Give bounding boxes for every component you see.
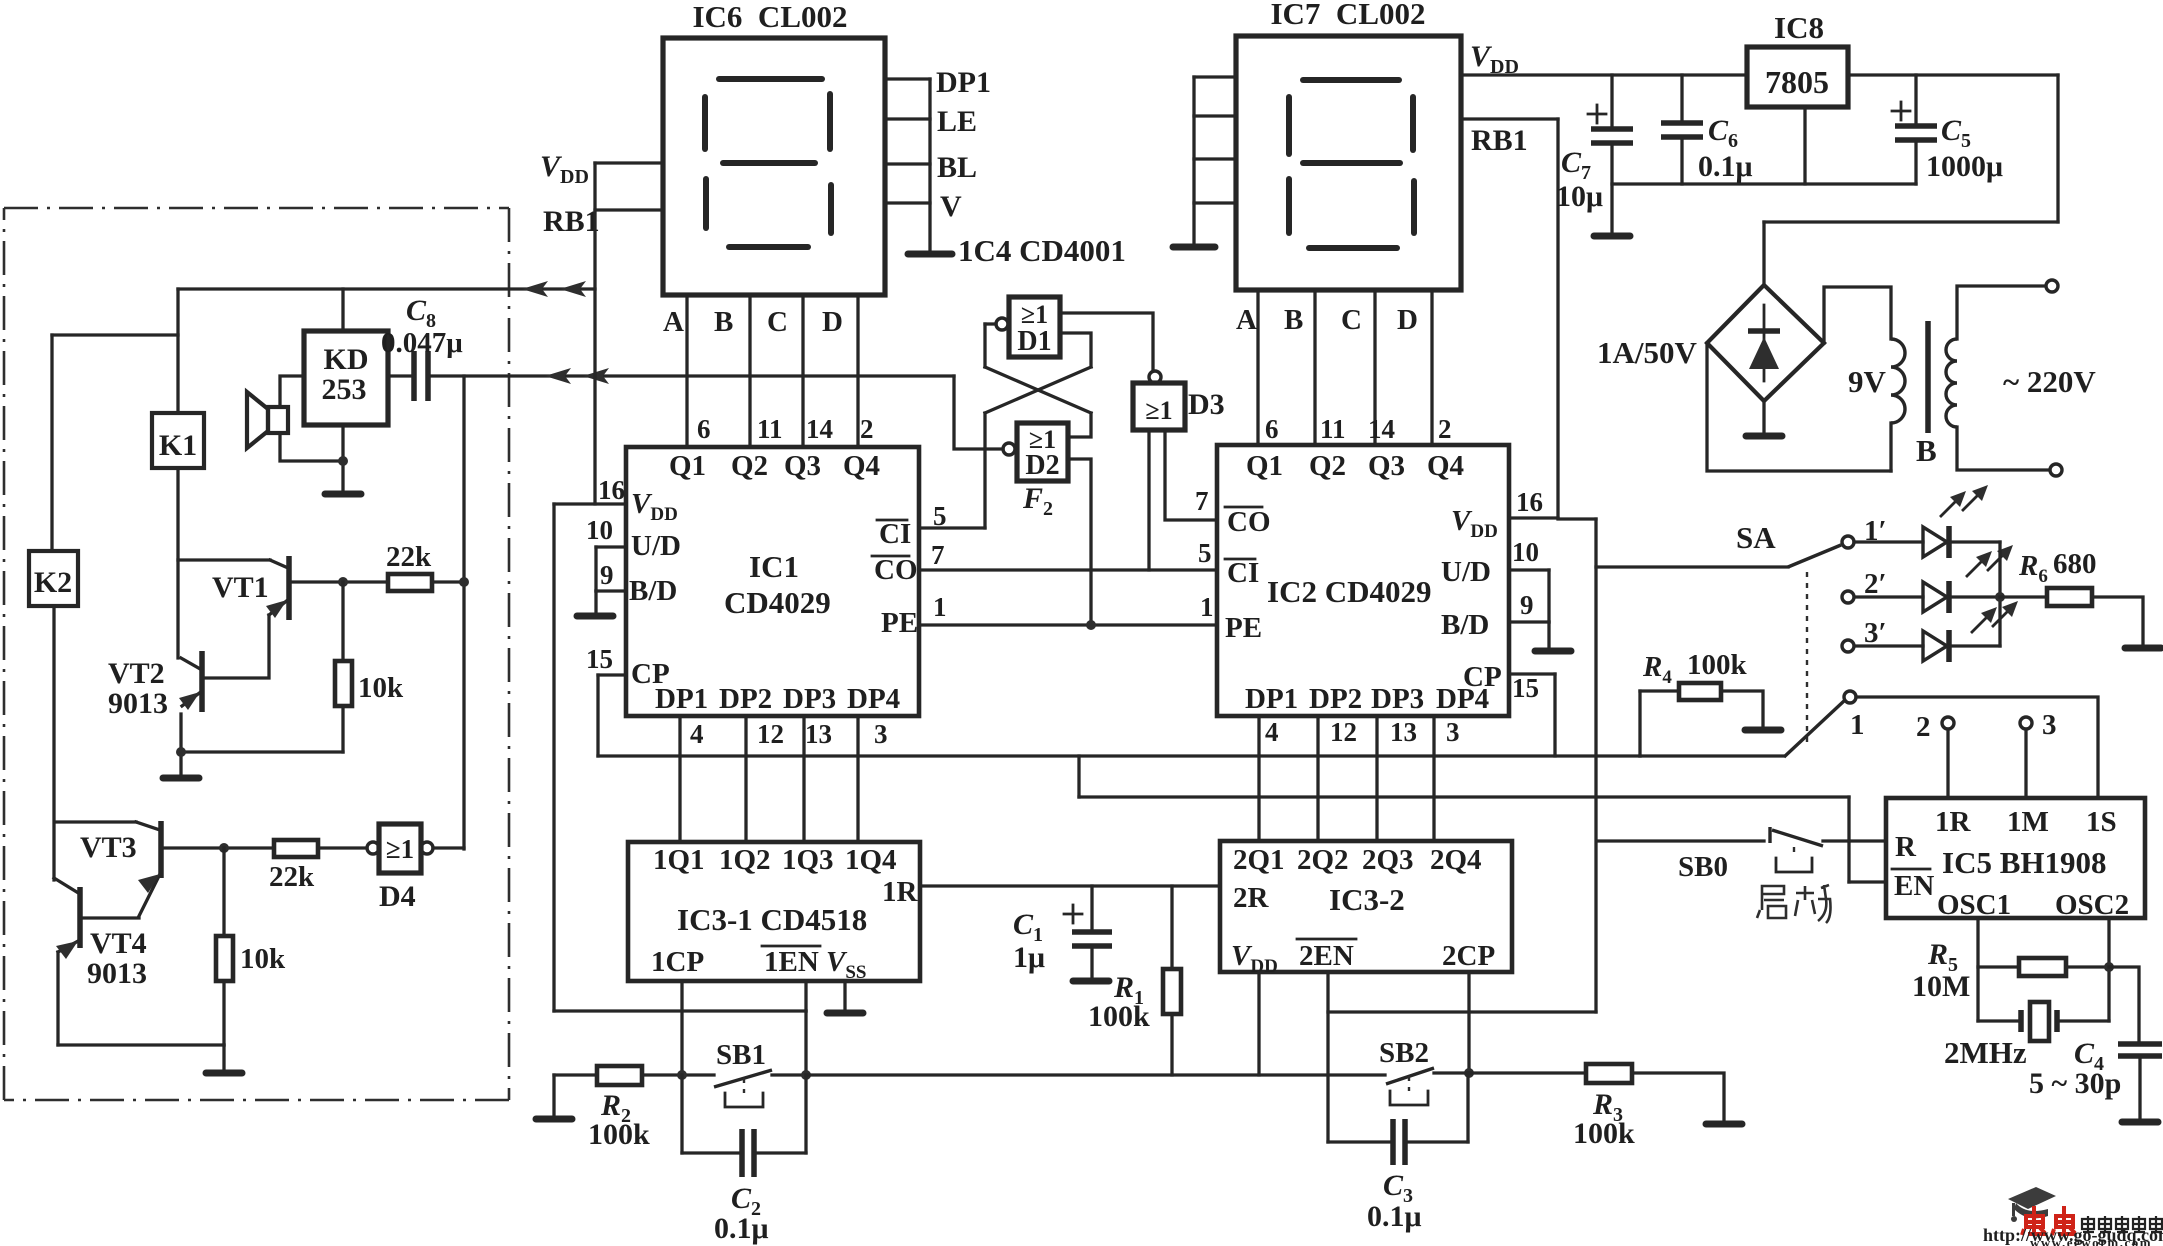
svg-text:CO: CO bbox=[1227, 506, 1271, 538]
svg-text:9013: 9013 bbox=[108, 687, 168, 720]
svg-text:A: A bbox=[663, 306, 684, 338]
dash-dot boundary of alarm module bbox=[4, 207, 509, 210]
resistor R2 100k bbox=[554, 1073, 597, 1076]
svg-text:14: 14 bbox=[806, 414, 833, 444]
wire IC6 aux pins to ground bbox=[928, 79, 931, 252]
wire KD253 top bbox=[341, 289, 344, 331]
ground bbox=[206, 1070, 242, 1077]
wire D1 second pin bbox=[1060, 333, 1091, 367]
svg-text:14: 14 bbox=[1368, 414, 1395, 444]
svg-text:1R: 1R bbox=[1935, 806, 1972, 838]
ground bbox=[2125, 645, 2161, 652]
wire 2CP down bbox=[1467, 972, 1470, 1073]
wire OSC2 pin down bbox=[2107, 918, 2110, 1021]
svg-text:680: 680 bbox=[2053, 548, 2097, 580]
wire 1EN down bbox=[804, 981, 807, 1011]
transistor VT2 bbox=[199, 651, 205, 712]
svg-text:www.eeworm.com: www.eeworm.com bbox=[2030, 1235, 2152, 1246]
svg-text:5: 5 bbox=[933, 501, 947, 531]
svg-text:B: B bbox=[714, 306, 733, 338]
pin 3 of IC1 bbox=[856, 716, 859, 841]
wire RB1 to IC6 bbox=[595, 208, 663, 211]
svg-text:≥1: ≥1 bbox=[386, 834, 414, 864]
wire IC2 CP down to CP row bbox=[1553, 674, 1556, 756]
wire 7805 gnd pin bbox=[1803, 107, 1806, 184]
svg-text:SA: SA bbox=[1736, 520, 1776, 555]
pin BL of IC6 bbox=[885, 162, 930, 165]
svg-text:3: 3 bbox=[874, 719, 888, 749]
svg-text:2Q3: 2Q3 bbox=[1362, 844, 1414, 876]
svg-text:7: 7 bbox=[1195, 486, 1209, 516]
svg-text:22k: 22k bbox=[386, 541, 432, 573]
pin 16 of IC2 bbox=[1509, 516, 1558, 519]
pin 16 of IC1 bbox=[554, 502, 626, 505]
svg-text:≥1: ≥1 bbox=[1145, 396, 1172, 425]
svg-text:D1: D1 bbox=[1017, 326, 1051, 357]
wire D4 output up bbox=[433, 846, 464, 849]
cross wire right-to-left bbox=[985, 367, 1091, 413]
svg-text:VT3: VT3 bbox=[80, 831, 137, 864]
crystal 2MHz bbox=[1978, 1019, 2019, 1022]
or-gate D2 bbox=[1017, 423, 1068, 481]
pin 15 of IC1 bbox=[598, 673, 626, 676]
svg-text:CP: CP bbox=[631, 658, 670, 690]
svg-text:B/D: B/D bbox=[629, 575, 677, 607]
svg-text:1R: 1R bbox=[882, 876, 919, 908]
counter IC3-1 CD4518 bbox=[628, 842, 920, 981]
mechanical link dashed bbox=[1806, 572, 1808, 748]
wire IC6 C to IC1 Q3 bbox=[801, 295, 804, 447]
ground bbox=[1173, 244, 1215, 251]
svg-text:OSC2: OSC2 bbox=[2055, 889, 2129, 921]
ground bbox=[536, 1116, 572, 1123]
svg-text:3: 3 bbox=[2042, 709, 2057, 741]
svg-text:PE: PE bbox=[881, 607, 918, 639]
svg-text:VT2: VT2 bbox=[108, 657, 165, 690]
transistor VT3 bbox=[55, 820, 136, 823]
svg-text:13: 13 bbox=[1390, 717, 1417, 747]
wire IC7 VDD to rail bbox=[1461, 73, 1747, 76]
pin 10 of IC2 bbox=[1509, 568, 1549, 571]
ground bbox=[1745, 727, 1781, 734]
input bubble of D1 bbox=[996, 318, 1008, 330]
resistor 10k (VT4) bbox=[222, 848, 225, 936]
svg-text:0.1μ: 0.1μ bbox=[714, 1212, 769, 1245]
relay K1 bbox=[152, 413, 204, 468]
wire VDD vertical to IC1 pin16 bbox=[593, 163, 596, 504]
wire D3 pin to CO-CI line bbox=[1147, 430, 1150, 570]
cross wire X left-to-right bbox=[985, 367, 1091, 413]
transistor VT1 bbox=[178, 558, 270, 561]
svg-text:253: 253 bbox=[322, 373, 367, 406]
svg-text:9: 9 bbox=[600, 560, 614, 590]
svg-text:100k: 100k bbox=[1573, 1117, 1635, 1150]
svg-text:Q3: Q3 bbox=[1368, 450, 1405, 482]
svg-text:10k: 10k bbox=[240, 943, 286, 975]
pin 10 of IC1 bbox=[596, 545, 626, 548]
wire to ground bbox=[594, 591, 597, 613]
switch SB0 bbox=[1598, 839, 1764, 842]
wire R4 to ground bbox=[1721, 691, 1763, 727]
svg-text:1C4 CD4001: 1C4 CD4001 bbox=[958, 233, 1126, 268]
svg-text:16: 16 bbox=[1516, 487, 1543, 517]
svg-text:Q3: Q3 bbox=[784, 450, 821, 482]
svg-text:Q2: Q2 bbox=[731, 450, 768, 482]
wire KD253 bottom to ground bbox=[341, 425, 344, 491]
svg-text:15: 15 bbox=[1512, 673, 1539, 703]
wire D2 upper right pin bbox=[1068, 413, 1091, 437]
ground bbox=[577, 613, 613, 620]
svg-text:D4: D4 bbox=[379, 880, 416, 913]
capacitor C2 bbox=[680, 1075, 683, 1153]
svg-text:0.1μ: 0.1μ bbox=[1698, 150, 1753, 183]
svg-text:2R: 2R bbox=[1233, 882, 1270, 914]
wire D1 output to D3 bbox=[1060, 313, 1153, 370]
svg-text:10: 10 bbox=[1512, 537, 1539, 567]
wire 1R to 2R bbox=[920, 884, 1220, 887]
svg-text:1EN: 1EN bbox=[764, 946, 819, 978]
svg-text:IC1: IC1 bbox=[749, 549, 799, 584]
wire bridge AC left bbox=[1707, 343, 1891, 471]
svg-text:~ 220V: ~ 220V bbox=[2003, 364, 2096, 399]
wire D2 input from C8 node bbox=[954, 376, 1003, 449]
svg-text:100k: 100k bbox=[588, 1118, 650, 1151]
svg-text:2: 2 bbox=[860, 414, 874, 444]
svg-text:100k: 100k bbox=[1088, 1000, 1150, 1033]
svg-text:D2: D2 bbox=[1025, 450, 1059, 481]
wire X to IC1 CI bbox=[983, 413, 986, 528]
svg-text:1Q4: 1Q4 bbox=[845, 844, 897, 876]
svg-text:4: 4 bbox=[690, 719, 704, 749]
svg-text:IC5 BH1908: IC5 BH1908 bbox=[1942, 845, 2107, 880]
svg-text:R: R bbox=[1895, 831, 1917, 863]
svg-text:Q4: Q4 bbox=[1427, 450, 1464, 482]
capacitor C5 electrolytic bbox=[1914, 75, 1917, 124]
svg-text:DP1: DP1 bbox=[1245, 683, 1298, 715]
svg-text:DP4: DP4 bbox=[847, 683, 900, 715]
aux pins of IC7 to ground bbox=[1194, 75, 1236, 78]
wire bridge AC right bbox=[1824, 287, 1891, 343]
wire R3 to ground bbox=[1632, 1073, 1724, 1121]
wire VT4 emitter to ground bbox=[58, 1043, 224, 1046]
wire CP row bbox=[598, 754, 1640, 757]
terminal 220V top bbox=[2046, 280, 2058, 292]
arrowhead on wire bbox=[583, 368, 609, 384]
resistor R6 680 bbox=[2000, 595, 2047, 598]
svg-text:4: 4 bbox=[1265, 717, 1279, 747]
svg-text:PE: PE bbox=[1225, 612, 1262, 644]
IC KD253 music chip bbox=[304, 331, 388, 425]
wire OSC1 pin down bbox=[1976, 918, 1979, 1021]
svg-text:1: 1 bbox=[933, 592, 947, 622]
ground bbox=[2122, 1119, 2158, 1126]
svg-text:Q1: Q1 bbox=[1246, 450, 1283, 482]
wire K2 to VT3/VT4 collectors bbox=[52, 606, 55, 880]
capacitor C1 electrolytic bbox=[1090, 886, 1093, 929]
svg-text:B/D: B/D bbox=[1441, 609, 1489, 641]
wire VDD rail to 1EN/SB1 bbox=[552, 504, 555, 1011]
switch SB2 bbox=[1386, 1068, 1434, 1084]
svg-text:0.1μ: 0.1μ bbox=[1367, 1200, 1422, 1233]
LED VD3 bbox=[1855, 644, 1923, 647]
svg-text:1μ: 1μ bbox=[1013, 941, 1045, 974]
transformer core bbox=[1925, 321, 1931, 433]
svg-text:KD: KD bbox=[324, 343, 369, 376]
svg-text:1Q1: 1Q1 bbox=[653, 844, 705, 876]
svg-text:OSC1: OSC1 bbox=[1937, 889, 2011, 921]
input bubble of D2 bbox=[1003, 443, 1015, 455]
arrowhead on wire bbox=[545, 368, 571, 384]
switch section-1 arm bbox=[1640, 754, 1784, 757]
watermark cap icon bbox=[2008, 1187, 2056, 1222]
pin 5 of IC1 CI bbox=[919, 526, 985, 529]
terminal 220V bottom bbox=[2050, 464, 2062, 476]
pin 4 of IC1 bbox=[678, 716, 681, 841]
svg-text:5 ~ 30p: 5 ~ 30p bbox=[2029, 1067, 2121, 1100]
svg-text:1000μ: 1000μ bbox=[1926, 150, 2003, 183]
capacitor C3 bbox=[1328, 1140, 1392, 1143]
resistor 22k (VT1 base) bbox=[388, 574, 432, 591]
pin 7 of IC1 CO wire to IC2 CI bbox=[919, 568, 1217, 571]
svg-text:2MHz: 2MHz bbox=[1944, 1035, 2027, 1070]
wire VT2 emitter row bbox=[181, 750, 343, 753]
svg-text:11: 11 bbox=[1320, 414, 1346, 444]
wire SB1 left bbox=[642, 1073, 714, 1076]
wire KD253 to C8 bbox=[388, 374, 414, 377]
svg-text:3′: 3′ bbox=[1864, 617, 1887, 649]
svg-text:D3: D3 bbox=[1188, 388, 1225, 421]
pin 2 of IC2 bbox=[1430, 290, 1433, 445]
svg-text:2CP: 2CP bbox=[1442, 940, 1495, 972]
wire down to R and EN pins bbox=[1847, 797, 1850, 882]
wire contact 1 to IC5 1S bbox=[1856, 697, 2098, 798]
wire IC3-2 VDD down bbox=[1257, 972, 1260, 1075]
svg-text:13: 13 bbox=[805, 719, 832, 749]
svg-text:2′: 2′ bbox=[1864, 568, 1887, 600]
svg-text:IC8: IC8 bbox=[1774, 10, 1824, 45]
svg-text:V: V bbox=[940, 190, 962, 223]
svg-text:1A/50V: 1A/50V bbox=[1597, 335, 1698, 370]
wire to C4 bbox=[2109, 967, 2139, 1041]
wire D2 output to PE line bbox=[1068, 459, 1091, 625]
or-gate D1 bbox=[1009, 297, 1060, 357]
ground bbox=[827, 1010, 863, 1017]
svg-text:CI: CI bbox=[879, 518, 911, 550]
wire IC6 B to IC1 Q2 bbox=[748, 295, 751, 447]
svg-text:1M: 1M bbox=[2007, 806, 2049, 838]
pin 15 of IC2 bbox=[1509, 672, 1555, 675]
svg-text:9: 9 bbox=[1520, 590, 1534, 620]
svg-text:1: 1 bbox=[1850, 709, 1865, 741]
resistor 10k (VT1) bbox=[341, 582, 344, 661]
svg-text:22k: 22k bbox=[269, 861, 315, 893]
wire K2 to K1 branch bbox=[52, 333, 178, 336]
bridge rectifier 1A/50V bbox=[1707, 285, 1824, 401]
wire 22k to D4/C8 node bbox=[432, 580, 464, 583]
arrowhead on wire bbox=[560, 281, 586, 297]
resistor R5 10M bbox=[1978, 965, 2019, 968]
svg-text:B: B bbox=[1284, 304, 1303, 336]
pin 13 of IC2 bbox=[1375, 716, 1378, 841]
ground bbox=[1746, 433, 1782, 440]
wire node down from C8 line to D4 output bbox=[462, 376, 465, 849]
wire SB1 row to C1/R1/IC3-2 bbox=[806, 1073, 1385, 1076]
watermark chongchong red characters bbox=[2022, 1206, 2076, 1235]
wire to ground bbox=[1547, 622, 1550, 649]
switch SB1 bbox=[714, 1070, 772, 1087]
svg-text:2: 2 bbox=[1438, 414, 1452, 444]
seven-segment digit of IC7 bbox=[1303, 77, 1399, 83]
svg-text:2Q2: 2Q2 bbox=[1297, 844, 1349, 876]
svg-text:LE: LE bbox=[937, 105, 977, 138]
pin 9 of IC1 bbox=[594, 547, 597, 591]
svg-text:RB1: RB1 bbox=[1471, 124, 1528, 157]
wire 2EN branch to VDD line bbox=[1328, 1010, 1596, 1013]
wire right rail down bbox=[2056, 75, 2059, 222]
wire D1 input bbox=[985, 322, 996, 325]
svg-text:Q1: Q1 bbox=[669, 450, 706, 482]
svg-text:DP3: DP3 bbox=[1371, 683, 1424, 715]
timer IC5 BH1908 bbox=[1886, 798, 2145, 918]
svg-text:0.047μ: 0.047μ bbox=[381, 327, 463, 359]
pin 14 of IC2 bbox=[1373, 290, 1376, 445]
wire R6 to ground bbox=[2092, 597, 2143, 645]
svg-text:CO: CO bbox=[874, 554, 918, 586]
pin 11 of IC2 bbox=[1313, 290, 1316, 445]
svg-text:B: B bbox=[1916, 433, 1937, 468]
svg-text:Q4: Q4 bbox=[843, 450, 880, 482]
svg-text:SB2: SB2 bbox=[1379, 1037, 1429, 1069]
display IC6 CL002 bbox=[663, 38, 885, 295]
ground bbox=[1706, 1121, 1742, 1128]
svg-text:IC7 CL002: IC7 CL002 bbox=[1270, 0, 1425, 31]
resistor R4 100k bbox=[1638, 691, 1641, 756]
wire CP row to IC5 R bbox=[1077, 756, 1080, 797]
svg-text:9V: 9V bbox=[1848, 364, 1887, 399]
seven-segment digit of IC6 bbox=[719, 76, 822, 82]
ground bbox=[908, 251, 952, 258]
wire speaker bottom bbox=[280, 433, 343, 461]
pin 1 of IC1 PE wire to IC2 PE bbox=[919, 623, 1217, 626]
wire VDD drop line bbox=[1558, 517, 1596, 520]
wire VT1 base to 22k bbox=[293, 580, 388, 583]
wire VDD to IC6 bbox=[595, 161, 663, 164]
svg-text:DP2: DP2 bbox=[1309, 683, 1362, 715]
svg-text:A: A bbox=[1236, 304, 1257, 336]
svg-text:3: 3 bbox=[1446, 717, 1460, 747]
LED VD2 bbox=[1855, 595, 1923, 598]
ground bbox=[1073, 978, 1109, 985]
wire 1CP down bbox=[680, 981, 683, 1075]
regulator IC8 7805 bbox=[1747, 47, 1848, 107]
svg-text:CD4029: CD4029 bbox=[724, 585, 831, 620]
label start (Chinese) bbox=[1757, 885, 1831, 923]
wire K1 to VT1 collector bbox=[176, 468, 179, 658]
svg-text:CI: CI bbox=[1227, 557, 1259, 589]
switch SA arm bbox=[1788, 545, 1841, 567]
wire gnd rail bbox=[1612, 182, 1916, 185]
svg-text:1CP: 1CP bbox=[651, 946, 704, 978]
resistor R3 100k bbox=[1586, 1064, 1632, 1083]
svg-text:7: 7 bbox=[931, 540, 945, 570]
wire 2EN down bbox=[1326, 972, 1329, 1142]
svg-text:100k: 100k bbox=[1687, 649, 1748, 681]
svg-text:SB0: SB0 bbox=[1678, 851, 1728, 883]
wire bridge minus to ground bbox=[1762, 401, 1765, 433]
ground bbox=[1594, 233, 1630, 240]
svg-text:6: 6 bbox=[1265, 414, 1279, 444]
svg-text:16: 16 bbox=[598, 475, 625, 505]
svg-text:RB1: RB1 bbox=[543, 205, 600, 238]
wire SB2 to R3 bbox=[1469, 1071, 1586, 1074]
svg-text:CP: CP bbox=[1463, 661, 1502, 693]
pin 12 of IC2 bbox=[1316, 716, 1319, 841]
svg-text:7805: 7805 bbox=[1765, 64, 1829, 100]
svg-text:9013: 9013 bbox=[87, 957, 147, 990]
svg-text:1Q3: 1Q3 bbox=[782, 844, 834, 876]
svg-text:6: 6 bbox=[697, 414, 711, 444]
wire 7805 output rail bbox=[1848, 73, 2058, 76]
transistor VT4 bbox=[77, 887, 83, 948]
svg-text:1S: 1S bbox=[2086, 806, 2117, 838]
pin 6 of IC2 bbox=[1256, 290, 1259, 445]
ground bbox=[163, 775, 199, 782]
wire 22k to D4 bbox=[318, 846, 367, 849]
svg-text:SB1: SB1 bbox=[716, 1039, 766, 1071]
ground bbox=[1535, 648, 1571, 655]
svg-text:D: D bbox=[822, 306, 843, 338]
svg-text:IC6 CL002: IC6 CL002 bbox=[692, 0, 847, 34]
speaker bbox=[247, 392, 268, 448]
svg-text:D: D bbox=[1397, 304, 1418, 336]
wire IC1 CP down bbox=[596, 675, 599, 756]
svg-text:10M: 10M bbox=[1912, 970, 1970, 1003]
counter IC3-2 bbox=[1220, 841, 1512, 972]
svg-text:2: 2 bbox=[1916, 711, 1931, 743]
resistor 22k (VT3 base) bbox=[274, 840, 318, 857]
svg-text:VT4: VT4 bbox=[90, 927, 147, 960]
wire to bridge bbox=[1764, 220, 2058, 223]
svg-text:12: 12 bbox=[1330, 717, 1357, 747]
svg-text:1: 1 bbox=[1200, 592, 1214, 622]
svg-text:IC3-2: IC3-2 bbox=[1329, 882, 1405, 917]
svg-text:15: 15 bbox=[586, 644, 613, 674]
svg-text:11: 11 bbox=[757, 414, 783, 444]
svg-text:12: 12 bbox=[757, 719, 784, 749]
watermark text dianzi xiazaizhan bbox=[2082, 1216, 2162, 1232]
pin V of IC6 bbox=[885, 201, 930, 204]
wire D3 pin to IC2 CO bbox=[1165, 430, 1217, 520]
transformer primary 220V bbox=[1946, 339, 1957, 427]
wire SA common bbox=[1596, 565, 1788, 568]
svg-text:2Q4: 2Q4 bbox=[1430, 844, 1482, 876]
transformer B secondary 9V bbox=[1891, 339, 1905, 423]
counter IC2 CD4029 bbox=[1217, 445, 1509, 716]
counter IC1 CD4029 bbox=[626, 447, 919, 716]
svg-text:VT1: VT1 bbox=[212, 571, 269, 604]
resistor R1 100k bbox=[1170, 886, 1173, 969]
svg-text:2EN: 2EN bbox=[1299, 940, 1354, 972]
pin LE of IC6 bbox=[885, 117, 930, 120]
svg-text:10: 10 bbox=[586, 515, 613, 545]
svg-text:C: C bbox=[767, 306, 788, 338]
svg-text:IC3-1 CD4518: IC3-1 CD4518 bbox=[677, 902, 867, 937]
ground bbox=[325, 491, 361, 498]
svg-text:C: C bbox=[1341, 304, 1362, 336]
display IC7 CL002 bbox=[1236, 36, 1461, 290]
svg-text:U/D: U/D bbox=[1441, 556, 1491, 588]
arrowhead on wire bbox=[522, 281, 548, 297]
